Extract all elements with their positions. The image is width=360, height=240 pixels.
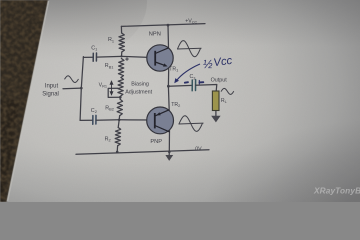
- resistor RL: [212, 91, 219, 111]
- node dots: [80, 24, 171, 154]
- wire C2 left: [80, 119, 93, 121]
- blue flick mark right of C3: [199, 80, 203, 84]
- wire TR1 emitter to node: [167, 68, 169, 86]
- resistor R2: [118, 120, 119, 128]
- wire C3 to output corner: [196, 85, 217, 92]
- plus mark at TR1 bias junction: [125, 57, 128, 60]
- output sine small: [221, 88, 234, 94]
- resistor RB1: [118, 59, 124, 78]
- capacitor C2: [93, 115, 96, 124]
- wire input column vertical: [80, 57, 83, 121]
- wire TR2 emitter from node: [167, 86, 170, 110]
- TR1 sine with axis: [177, 41, 202, 57]
- paper edge highlight: [8, 1, 49, 201]
- blue minus mark left of C3: [185, 81, 188, 84]
- wire pot wiper tap: [108, 88, 120, 97]
- capacitor C3: [192, 80, 195, 91]
- wire TR1 collector: [167, 25, 170, 48]
- resistor RB2: [119, 97, 121, 99]
- wire R1 top stem: [120, 26, 122, 33]
- wire input lead: [63, 87, 81, 90]
- ground under RL: [211, 116, 220, 123]
- wire RL bottom stem: [215, 111, 217, 116]
- wire C1 to base junction: [97, 55, 122, 58]
- potentiometer VR1 section: [118, 78, 124, 97]
- blue arrow to output node: [176, 64, 200, 81]
- wire 0V bottom rail: [76, 150, 209, 155]
- wire TR1 base: [122, 56, 156, 57]
- wire TR2 base: [119, 119, 154, 121]
- input sine: [65, 76, 79, 83]
- wire C2 to base junction: [96, 119, 119, 121]
- resistor R1: [119, 33, 125, 52]
- wire node to C3: [168, 84, 192, 87]
- capacitor C1: [93, 53, 96, 61]
- carpet background wedge: [0, 0, 48, 202]
- VR1 voltage double arrow: [110, 81, 113, 94]
- transistor TR2 (PNP): [147, 107, 174, 134]
- ground under TR2: [165, 155, 173, 161]
- wire R1 bottom stem: [121, 52, 123, 56]
- wire +Vcc top rail: [121, 24, 205, 27]
- transistor TR1 (NPN): [147, 45, 173, 71]
- TR2 sine with axis: [179, 116, 204, 132]
- wire C1 to input column: [83, 56, 93, 58]
- wire TR2 collector to ground: [168, 130, 170, 155]
